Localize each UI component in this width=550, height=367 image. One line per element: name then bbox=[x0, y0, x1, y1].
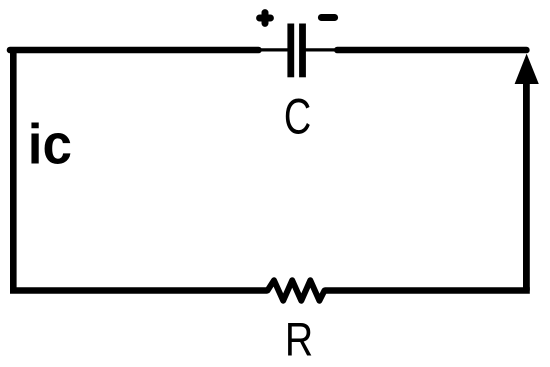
wire left vertical bbox=[10, 47, 17, 291]
wire right vertical (arrow shaft) bbox=[523, 80, 530, 291]
resistor R1 zigzag bbox=[268, 280, 325, 300]
svg-text:R: R bbox=[285, 314, 313, 366]
capacitor C1 left plate bbox=[287, 24, 294, 78]
capacitor C1 lead left (thin) bbox=[260, 48, 288, 51]
capacitor C1 lead right (thin) bbox=[305, 48, 336, 51]
wire top-left segment bbox=[10, 47, 259, 54]
capacitor C1 right plate bbox=[299, 24, 306, 78]
wire bottom-right segment bbox=[325, 287, 530, 294]
svg-text:C: C bbox=[284, 90, 311, 145]
arrowhead current direction up bbox=[515, 54, 539, 84]
wire bottom-left segment bbox=[10, 287, 268, 294]
minus polarity sign bbox=[321, 14, 334, 21]
svg-text:ic: ic bbox=[28, 112, 72, 176]
plus polarity sign bbox=[260, 13, 271, 24]
wire top-right segment bbox=[337, 47, 526, 54]
